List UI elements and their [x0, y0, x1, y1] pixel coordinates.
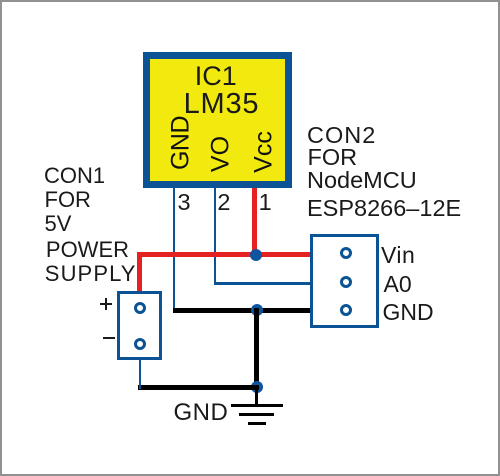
CON1 pin + (top)	[134, 302, 146, 314]
wire +5V vertical to CON1 (red)	[137, 252, 142, 292]
junction GND node lower	[251, 381, 263, 393]
pin label Vcc (pin 1)	[252, 131, 277, 173]
label CON1 FOR 5V POWER SUPPLY	[44, 165, 105, 187]
reference designator label IC1	[195, 63, 237, 90]
pin number 3	[178, 191, 191, 215]
wire ground vertical (black)	[254, 308, 259, 390]
CON1 pin minus (bottom)	[134, 338, 146, 350]
wire +5V horizontal (red)	[137, 252, 311, 257]
wire pin1 vertical (red Vcc)	[252, 188, 257, 257]
junction GND node upper	[251, 304, 263, 316]
junction +5V node	[250, 249, 262, 261]
label Vin	[381, 244, 415, 267]
value label LM35	[184, 90, 260, 119]
wire CON1 bottom stub (blue)	[139, 358, 142, 389]
wire ground bottom horizontal (black)	[138, 385, 259, 390]
wire pin2 to A0 horizontal (blue)	[214, 282, 312, 285]
minus symbol	[103, 337, 115, 340]
label GND	[383, 301, 434, 324]
pin number 1	[259, 191, 272, 215]
label CON2 FOR NodeMCU ESP8266-12E	[307, 124, 376, 148]
pin label GND (pin 3)	[169, 116, 194, 170]
IC IC1 (LM35 temperature sensor) body	[143, 52, 293, 188]
pin number 2	[217, 191, 230, 215]
connector CON2 body	[310, 234, 379, 328]
wire pin3 vertical (blue)	[173, 188, 176, 313]
label A0	[384, 273, 412, 296]
wire ground bus horizontal (black)	[173, 308, 312, 313]
plus symbol	[100, 303, 112, 306]
connector CON1 body	[117, 291, 162, 360]
CON2 pin GND	[340, 304, 352, 316]
wire pin2 vertical (blue)	[214, 188, 217, 285]
ground symbol	[255, 389, 258, 406]
label GND (bottom)	[174, 401, 229, 425]
CON2 pin Vin	[340, 247, 352, 259]
CON2 pin A0	[340, 276, 352, 288]
pin label VO (pin 2)	[209, 136, 234, 172]
